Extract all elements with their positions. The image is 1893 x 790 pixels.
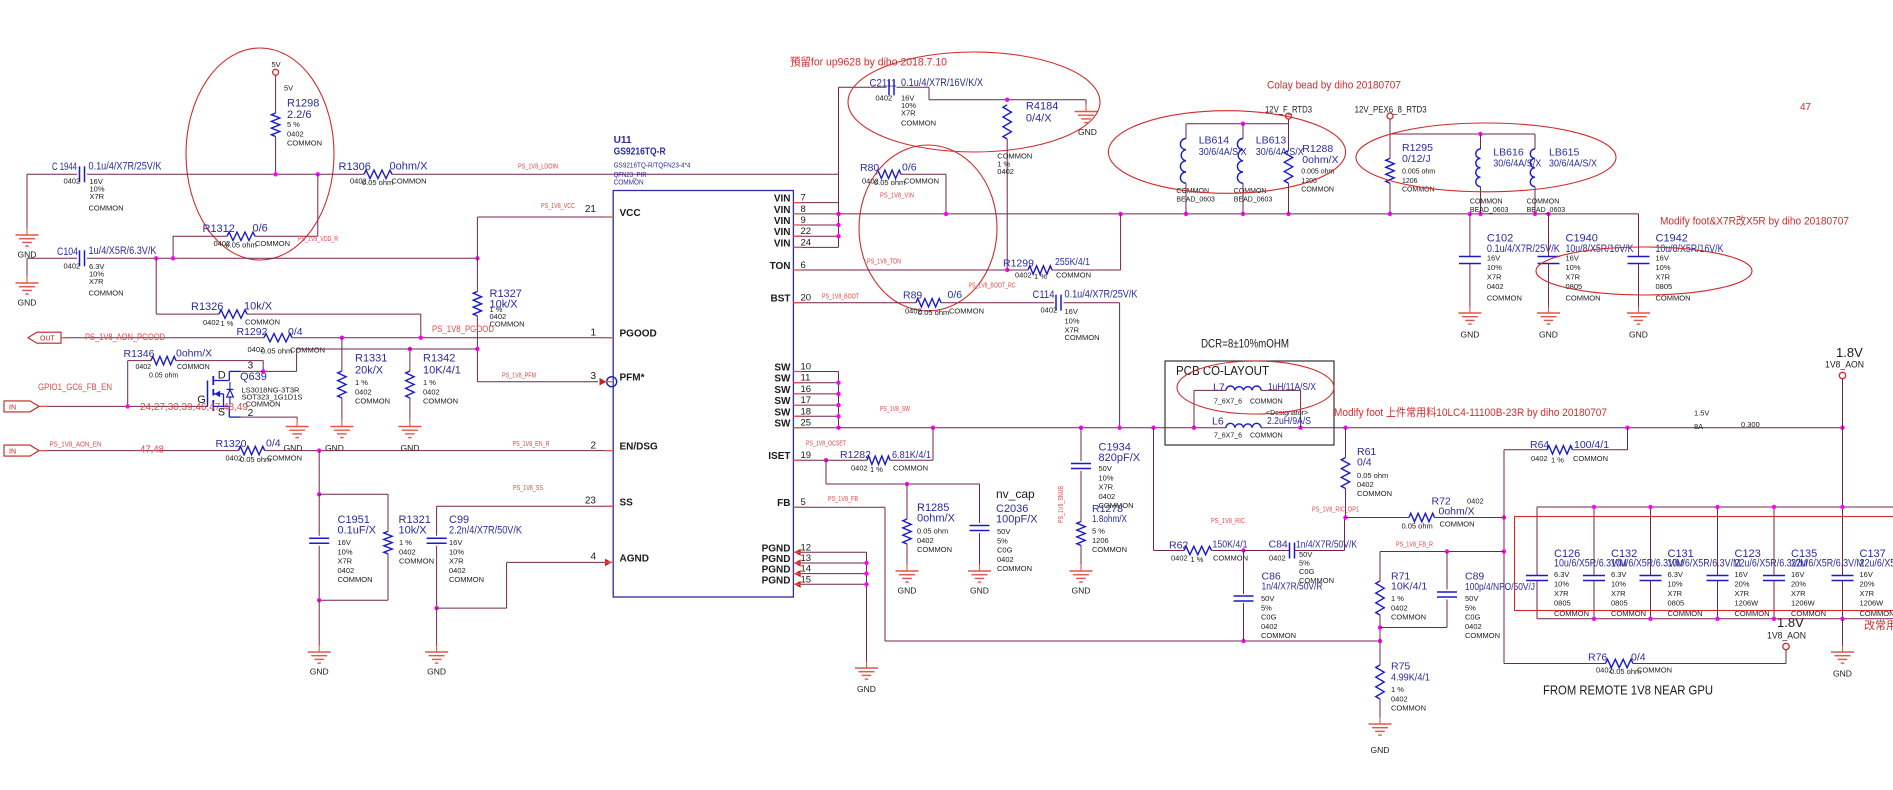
svg-text:改常用: 改常用 (1864, 618, 1893, 632)
svg-text:6.3V: 6.3V (1668, 570, 1683, 579)
svg-text:COMMON: COMMON (392, 177, 427, 186)
svg-text:25: 25 (801, 418, 812, 429)
svg-text:10%: 10% (1611, 580, 1626, 589)
svg-text:X7R: X7R (89, 277, 104, 286)
svg-text:0402: 0402 (1465, 622, 1482, 631)
svg-text:0402: 0402 (1391, 603, 1408, 612)
svg-text:16V: 16V (1566, 254, 1579, 263)
svg-text:PGND: PGND (762, 565, 791, 576)
svg-text:0402: 0402 (399, 547, 416, 556)
svg-text:X7R: X7R (338, 557, 353, 566)
svg-text:COMMON: COMMON (997, 564, 1032, 573)
svg-text:0402: 0402 (449, 566, 466, 575)
svg-text:SW: SW (774, 374, 791, 385)
svg-text:LB613: LB613 (1256, 135, 1287, 147)
svg-text:BEAD_0603: BEAD_0603 (1234, 197, 1273, 204)
svg-text:1 %: 1 % (1391, 685, 1404, 694)
svg-text:10%: 10% (1566, 263, 1581, 272)
svg-text:COMMON: COMMON (177, 364, 210, 371)
svg-text:0402: 0402 (876, 94, 893, 103)
svg-text:50V: 50V (1099, 464, 1112, 473)
svg-text:PS_1V8_RIC_OP1: PS_1V8_RIC_OP1 (1312, 507, 1359, 514)
svg-text:BST: BST (771, 294, 791, 305)
svg-text:20: 20 (801, 293, 812, 304)
svg-text:5%: 5% (1261, 603, 1272, 612)
svg-text:1: 1 (590, 328, 596, 339)
svg-text:50V: 50V (1465, 594, 1478, 603)
svg-text:0.300: 0.300 (1741, 420, 1760, 429)
svg-text:0402: 0402 (64, 177, 81, 186)
svg-text:1u/4/X5R/6.3V/K: 1u/4/X5R/6.3V/K (89, 245, 158, 257)
svg-text:0/6: 0/6 (253, 223, 268, 235)
svg-text:6: 6 (801, 260, 806, 271)
svg-text:PS_1V8_PGOOD: PS_1V8_PGOOD (432, 324, 494, 335)
svg-text:16V: 16V (1860, 570, 1873, 579)
svg-text:1V8_AON: 1V8_AON (1825, 360, 1864, 371)
svg-text:0/12/J: 0/12/J (1402, 153, 1431, 165)
svg-text:nv_cap: nv_cap (996, 487, 1035, 501)
svg-text:0ohm/X: 0ohm/X (176, 348, 212, 360)
svg-text:COMMON: COMMON (287, 139, 322, 148)
svg-text:X7R: X7R (1611, 589, 1626, 598)
svg-text:0402: 0402 (851, 464, 868, 473)
svg-text:7_6X7_6: 7_6X7_6 (1214, 399, 1242, 406)
svg-text:2.2uH/9A/S: 2.2uH/9A/S (1267, 415, 1311, 427)
svg-text:PGND: PGND (762, 575, 791, 586)
svg-text:X7R: X7R (1656, 273, 1671, 282)
svg-text:1 %: 1 % (1551, 456, 1564, 465)
svg-text:COMMON: COMMON (1092, 545, 1127, 554)
svg-text:0.05 ohm: 0.05 ohm (1357, 471, 1388, 480)
svg-text:8A: 8A (1694, 422, 1703, 431)
svg-text:5 %: 5 % (287, 120, 300, 129)
svg-text:COMMON: COMMON (399, 557, 434, 566)
svg-text:PS_1V8_BOOT: PS_1V8_BOOT (822, 294, 860, 301)
svg-text:X7R: X7R (1735, 589, 1750, 598)
svg-text:47,48: 47,48 (140, 445, 164, 456)
svg-text:PS_1V8_FB: PS_1V8_FB (828, 496, 858, 503)
svg-text:5V: 5V (284, 84, 293, 93)
svg-text:0402: 0402 (917, 536, 934, 545)
svg-text:3: 3 (248, 361, 254, 372)
svg-text:GND: GND (18, 298, 37, 308)
svg-text:0402: 0402 (287, 129, 304, 138)
svg-text:0805: 0805 (1611, 599, 1628, 608)
svg-text:21: 21 (585, 204, 597, 215)
svg-text:PS_1V8_EN_R: PS_1V8_EN_R (513, 441, 550, 448)
svg-text:Q639: Q639 (240, 371, 267, 383)
svg-text:COMMON: COMMON (1566, 294, 1601, 303)
svg-text:22: 22 (801, 226, 812, 237)
svg-text:24,27,30,39,46,47,48,49: 24,27,30,39,46,47,48,49 (140, 402, 248, 413)
svg-text:11: 11 (801, 373, 811, 384)
svg-text:0/4/X: 0/4/X (1026, 113, 1052, 125)
svg-text:0402: 0402 (1099, 492, 1116, 501)
svg-text:10k/X: 10k/X (399, 525, 428, 537)
svg-text:R76: R76 (1588, 652, 1607, 664)
svg-text:R1299: R1299 (1003, 258, 1034, 270)
svg-text:X7R: X7R (1860, 589, 1875, 598)
svg-text:0.05 ohm: 0.05 ohm (1402, 522, 1433, 531)
svg-text:BEAD_0603: BEAD_0603 (1527, 207, 1566, 214)
svg-text:0402: 0402 (1171, 554, 1188, 563)
svg-text:6.81K/4/1: 6.81K/4/1 (892, 449, 931, 461)
svg-text:PS_1V8_OCSET: PS_1V8_OCSET (806, 441, 847, 448)
svg-text:VCC: VCC (620, 208, 641, 219)
svg-text:0.005 ohm: 0.005 ohm (1402, 169, 1435, 176)
svg-text:1 %: 1 % (1034, 272, 1047, 281)
svg-text:0805: 0805 (1554, 599, 1571, 608)
svg-text:20%: 20% (1791, 580, 1806, 589)
svg-text:X7R: X7R (1099, 483, 1114, 492)
svg-text:SW: SW (774, 419, 791, 430)
svg-text:1206W: 1206W (1735, 599, 1760, 608)
svg-text:PS_1V8_VDD_R: PS_1V8_VDD_R (298, 236, 338, 243)
svg-text:GND: GND (898, 586, 917, 596)
svg-text:L7: L7 (1213, 382, 1225, 394)
svg-text:X7R: X7R (1487, 273, 1502, 282)
svg-text:14: 14 (801, 564, 812, 575)
svg-text:10k/X: 10k/X (244, 301, 273, 313)
svg-text:0402: 0402 (1269, 554, 1286, 563)
svg-text:820pF/X: 820pF/X (1099, 452, 1141, 464)
svg-text:1206W: 1206W (1791, 599, 1816, 608)
svg-text:100/4/1: 100/4/1 (1574, 439, 1609, 451)
svg-text:19: 19 (801, 450, 812, 461)
svg-text:C114: C114 (1033, 289, 1055, 301)
svg-text:COMMON: COMMON (1391, 613, 1426, 622)
svg-text:COMMON: COMMON (267, 454, 302, 463)
svg-text:16V: 16V (1735, 570, 1748, 579)
svg-text:C0G: C0G (1261, 613, 1277, 622)
svg-text:0.1u/4/X7R/25V/K: 0.1u/4/X7R/25V/K (89, 161, 163, 173)
svg-text:6.3V: 6.3V (1611, 570, 1626, 579)
svg-text:X7R: X7R (1566, 273, 1581, 282)
svg-text:DCR=8±10%mOHM: DCR=8±10%mOHM (1201, 337, 1289, 351)
svg-text:SW: SW (774, 396, 791, 407)
svg-text:PS_1V8_LDOIN: PS_1V8_LDOIN (518, 164, 558, 171)
svg-text:R1331: R1331 (355, 353, 387, 365)
svg-text:VIN: VIN (774, 205, 791, 216)
svg-text:COMMON: COMMON (1637, 666, 1672, 675)
svg-text:BEAD_0603: BEAD_0603 (1470, 207, 1509, 214)
svg-text:PS_1V8_SNUB: PS_1V8_SNUB (1058, 486, 1065, 523)
svg-text:COMMON: COMMON (355, 397, 390, 406)
svg-text:7_6X7_6: 7_6X7_6 (1214, 433, 1242, 440)
svg-text:X7R: X7R (90, 192, 105, 201)
svg-text:0ohm/X: 0ohm/X (1302, 154, 1338, 166)
svg-text:0402: 0402 (1261, 622, 1278, 631)
svg-text:COMMON: COMMON (1487, 294, 1522, 303)
svg-text:1 %: 1 % (399, 538, 412, 547)
svg-text:PS_1V8_AON_EN: PS_1V8_AON_EN (50, 442, 102, 449)
svg-text:GS9216TQ-R: GS9216TQ-R (614, 147, 667, 158)
svg-text:R1312: R1312 (203, 223, 235, 235)
svg-text:SS: SS (620, 497, 634, 508)
svg-text:0/4: 0/4 (1357, 457, 1372, 469)
svg-text:255K/4/1: 255K/4/1 (1055, 256, 1090, 268)
svg-text:AGND: AGND (620, 553, 649, 564)
svg-text:PS_1V8_PFM: PS_1V8_PFM (502, 373, 536, 380)
svg-text:COMMON: COMMON (1440, 520, 1475, 529)
svg-text:0805: 0805 (1668, 599, 1685, 608)
svg-text:0402: 0402 (1467, 497, 1484, 506)
svg-text:C104: C104 (57, 246, 78, 258)
svg-text:COMMON: COMMON (1213, 554, 1248, 563)
svg-text:R1282: R1282 (840, 449, 871, 461)
svg-text:24: 24 (801, 237, 812, 248)
svg-text:0.005 ohm: 0.005 ohm (1301, 169, 1334, 176)
svg-text:GS9216TQ-R/TQFN23-4*4: GS9216TQ-R/TQFN23-4*4 (614, 162, 691, 169)
svg-text:COMMON: COMMON (449, 575, 484, 584)
svg-text:0402: 0402 (423, 387, 440, 396)
svg-text:0402: 0402 (64, 262, 81, 271)
svg-text:R4184: R4184 (1026, 101, 1058, 113)
svg-text:IN: IN (9, 404, 16, 411)
svg-text:C0G: C0G (997, 546, 1013, 555)
svg-text:COMMON: COMMON (1465, 631, 1500, 640)
svg-text:1uH/11A/S/X: 1uH/11A/S/X (1268, 381, 1316, 393)
svg-text:ISET: ISET (768, 451, 790, 462)
svg-text:16: 16 (801, 384, 812, 395)
svg-text:VIN: VIN (774, 238, 791, 249)
svg-text:47: 47 (1800, 102, 1812, 113)
svg-text:SW: SW (774, 363, 791, 374)
svg-text:0402: 0402 (1357, 480, 1374, 489)
svg-text:50V: 50V (1261, 594, 1274, 603)
svg-text:COMMON: COMMON (89, 204, 124, 213)
svg-text:LB614: LB614 (1199, 135, 1230, 147)
svg-text:0402: 0402 (1531, 454, 1548, 463)
svg-text:COMMON: COMMON (1301, 187, 1334, 194)
svg-text:C2111: C2111 (870, 78, 897, 90)
svg-text:預留for up9628 by diho 2018.7.10: 預留for up9628 by diho 2018.7.10 (790, 56, 947, 69)
svg-text:0402: 0402 (136, 364, 152, 371)
svg-text:0/6: 0/6 (902, 162, 917, 174)
svg-text:IN: IN (9, 449, 16, 456)
svg-text:1 %: 1 % (355, 378, 368, 387)
svg-text:10K/4/1: 10K/4/1 (1391, 581, 1427, 593)
svg-text:U11: U11 (614, 135, 632, 146)
svg-text:COMMON: COMMON (1573, 454, 1608, 463)
svg-text:R64: R64 (1530, 439, 1549, 451)
svg-text:0.05 ohm: 0.05 ohm (226, 241, 257, 250)
svg-text:0ohm/X: 0ohm/X (390, 161, 429, 173)
svg-text:GND: GND (310, 667, 329, 677)
svg-text:10%: 10% (1487, 263, 1502, 272)
svg-text:10%: 10% (338, 547, 353, 556)
svg-text:EN/DSG: EN/DSG (620, 442, 659, 453)
svg-text:R1298: R1298 (287, 98, 319, 110)
svg-text:2.2n/4/X7R/50V/K: 2.2n/4/X7R/50V/K (449, 525, 523, 537)
svg-text:10%: 10% (449, 547, 464, 556)
svg-text:4.99K/4/1: 4.99K/4/1 (1391, 672, 1430, 684)
svg-text:PS_1V8_VCC: PS_1V8_VCC (541, 203, 575, 210)
svg-text:Modify foot 上件常用料10LC4-11100B-: Modify foot 上件常用料10LC4-11100B-23R by dih… (1334, 405, 1607, 419)
svg-text:0402: 0402 (203, 318, 220, 327)
svg-text:100pF/X: 100pF/X (996, 514, 1038, 526)
svg-text:6.3V: 6.3V (1554, 570, 1569, 579)
svg-text:0/4: 0/4 (288, 326, 303, 338)
svg-text:16V: 16V (338, 538, 351, 547)
svg-text:10%: 10% (1554, 580, 1569, 589)
svg-text:Modify foot&X7R改X5R by diho 20: Modify foot&X7R改X5R by diho 20180707 (1660, 214, 1849, 228)
svg-text:22u/6/X5R/6.3V/M: 22u/6/X5R/6.3V/M (1791, 558, 1864, 570)
svg-text:VIN: VIN (774, 194, 791, 205)
svg-text:1.8ohm/X: 1.8ohm/X (1092, 513, 1127, 525)
svg-text:C84: C84 (1269, 539, 1288, 551)
svg-text:PGND: PGND (762, 543, 791, 554)
svg-text:GND: GND (400, 443, 419, 453)
svg-text:R1342: R1342 (423, 353, 455, 365)
svg-text:0.05 ohm: 0.05 ohm (149, 373, 178, 380)
svg-text:1V8_AON: 1V8_AON (1767, 631, 1806, 642)
svg-text:10%: 10% (1099, 473, 1114, 482)
svg-text:1206W: 1206W (1860, 599, 1885, 608)
svg-text:COMMON: COMMON (1470, 199, 1503, 206)
svg-text:PS_1V8_TON: PS_1V8_TON (867, 259, 901, 266)
svg-text:7: 7 (801, 193, 806, 204)
svg-text:18: 18 (801, 406, 812, 417)
svg-text:PCB CO-LAYOUT: PCB CO-LAYOUT (1176, 363, 1269, 378)
svg-text:1n/4/X7R/50V/R: 1n/4/X7R/50V/R (1262, 581, 1323, 593)
svg-text:COMMON: COMMON (1402, 187, 1435, 194)
svg-text:R1326: R1326 (191, 301, 223, 313)
svg-text:GPIO1_GC6_FB_EN: GPIO1_GC6_FB_EN (38, 382, 112, 392)
svg-text:30/6/4A/S/X: 30/6/4A/S/X (1493, 158, 1541, 170)
svg-text:0.1u/4/X7R/16V/K/X: 0.1u/4/X7R/16V/K/X (901, 77, 984, 89)
svg-text:X7R: X7R (449, 557, 464, 566)
svg-text:0402: 0402 (1041, 306, 1058, 315)
svg-text:13: 13 (801, 553, 812, 564)
svg-text:R62: R62 (1169, 540, 1188, 552)
svg-text:PS_1V8_RIC: PS_1V8_RIC (1211, 518, 1245, 525)
svg-text:COMMON: COMMON (89, 289, 124, 298)
svg-text:X7R: X7R (901, 109, 916, 118)
svg-text:COMMON: COMMON (1261, 631, 1296, 640)
svg-text:16V: 16V (1656, 254, 1669, 263)
svg-text:1206: 1206 (1092, 536, 1109, 545)
svg-text:10K/4/1: 10K/4/1 (423, 365, 461, 377)
svg-text:1.8V: 1.8V (1836, 345, 1863, 360)
svg-text:10%: 10% (1656, 263, 1671, 272)
svg-text:PFM*: PFM* (620, 373, 645, 384)
svg-text:5 %: 5 % (1092, 527, 1105, 536)
svg-text:COMMON: COMMON (917, 545, 952, 554)
svg-text:FB: FB (777, 498, 790, 509)
svg-text:0/4: 0/4 (1631, 652, 1646, 664)
svg-text:15: 15 (801, 574, 812, 585)
svg-text:GND: GND (1833, 669, 1852, 679)
svg-text:0ohm/X: 0ohm/X (1439, 506, 1475, 518)
svg-text:COMMON: COMMON (614, 180, 644, 187)
svg-text:GND: GND (427, 667, 446, 677)
svg-text:GND: GND (970, 586, 989, 596)
svg-text:10%: 10% (1065, 316, 1080, 325)
svg-text:10: 10 (801, 362, 812, 373)
svg-text:GND: GND (1072, 586, 1091, 596)
svg-text:GND: GND (1629, 330, 1648, 340)
svg-text:PS_1V8_SS: PS_1V8_SS (513, 485, 543, 492)
svg-text:0402: 0402 (338, 566, 355, 575)
svg-text:10%: 10% (1668, 580, 1683, 589)
svg-text:COMMON: COMMON (893, 464, 928, 473)
svg-text:GND: GND (325, 443, 344, 453)
svg-text:20%: 20% (1735, 580, 1750, 589)
svg-text:D: D (218, 369, 226, 381)
svg-text:0.05 ohm: 0.05 ohm (917, 527, 948, 536)
svg-text:R1320: R1320 (216, 438, 247, 450)
svg-text:COMMON: COMMON (1065, 333, 1100, 342)
svg-text:8: 8 (801, 204, 806, 215)
svg-text:COMMON: COMMON (949, 307, 984, 316)
svg-text:0/6: 0/6 (948, 289, 963, 301)
svg-text:50V: 50V (997, 527, 1010, 536)
svg-text:L6: L6 (1212, 416, 1224, 428)
svg-text:30/6/4A/S/X: 30/6/4A/S/X (1549, 158, 1597, 170)
svg-text:X7R: X7R (1791, 589, 1806, 598)
svg-text:COMMON: COMMON (1250, 433, 1283, 440)
svg-text:R1292: R1292 (237, 326, 268, 338)
svg-text:16V: 16V (1791, 570, 1804, 579)
svg-text:0.05 ohm: 0.05 ohm (918, 308, 949, 317)
svg-text:FROM REMOTE 1V8 NEAR GPU: FROM REMOTE 1V8 NEAR GPU (1543, 683, 1713, 698)
svg-text:COMMON: COMMON (904, 177, 939, 186)
svg-text:0805: 0805 (1656, 282, 1673, 291)
svg-text:X7R: X7R (1668, 589, 1683, 598)
svg-text:2: 2 (590, 441, 596, 452)
svg-text:150K/4/1: 150K/4/1 (1213, 539, 1248, 551)
svg-text:0.1uF/X: 0.1uF/X (338, 525, 377, 537)
svg-text:BEAD_0603: BEAD_0603 (1176, 197, 1215, 204)
svg-text:0402: 0402 (355, 387, 372, 396)
svg-text:30/6/4A/S/X: 30/6/4A/S/X (1256, 146, 1304, 158)
svg-text:5%: 5% (997, 536, 1008, 545)
svg-text:0.05 ohm: 0.05 ohm (362, 178, 393, 187)
svg-text:5%: 5% (1465, 603, 1476, 612)
svg-text:COMMON: COMMON (490, 319, 525, 328)
svg-text:12: 12 (801, 542, 812, 553)
svg-text:R89: R89 (903, 290, 922, 302)
svg-text:1n/4/X7R/50V/K: 1n/4/X7R/50V/K (1296, 539, 1357, 551)
svg-text:20k/X: 20k/X (355, 365, 384, 377)
svg-text:16V: 16V (1065, 307, 1078, 316)
svg-text:1 %: 1 % (870, 465, 883, 474)
svg-text:23: 23 (585, 496, 597, 507)
svg-text:COMMON: COMMON (255, 239, 290, 248)
svg-text:SW: SW (774, 407, 791, 418)
svg-text:PS_1V8_BOOT_RC: PS_1V8_BOOT_RC (969, 283, 1016, 290)
svg-text:0.05 ohm: 0.05 ohm (261, 347, 292, 356)
svg-text:COMMON: COMMON (1391, 704, 1426, 713)
svg-text:0.1u/4/X7R/25V/K: 0.1u/4/X7R/25V/K (1065, 289, 1139, 301)
svg-text:COMMON: COMMON (290, 346, 325, 355)
svg-text:1 %: 1 % (423, 378, 436, 387)
svg-text:1 %: 1 % (1391, 594, 1404, 603)
svg-text:C0G: C0G (1465, 613, 1481, 622)
svg-text:C 1944: C 1944 (52, 161, 77, 173)
svg-text:VIN: VIN (774, 216, 791, 227)
svg-text:1 %: 1 % (1191, 555, 1204, 564)
svg-text:100p/4/NPO/50V/J: 100p/4/NPO/50V/J (1465, 581, 1535, 593)
svg-text:5: 5 (801, 497, 806, 508)
svg-text:PS_1V8_FB_R: PS_1V8_FB_R (1396, 542, 1433, 549)
svg-text:TON: TON (770, 261, 791, 272)
svg-text:GND: GND (284, 443, 303, 453)
svg-text:COMMON: COMMON (1250, 399, 1283, 406)
svg-text:SW: SW (774, 385, 791, 396)
svg-text:3: 3 (590, 371, 596, 382)
